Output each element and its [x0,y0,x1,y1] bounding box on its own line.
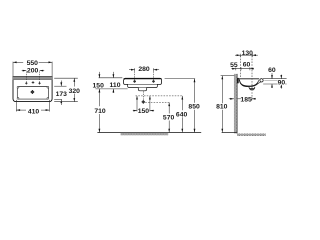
mounting blob [237,78,239,83]
front lip loop [259,78,264,83]
rim top line [238,78,259,80]
dim 150 bottom [133,110,137,112]
svg-text:60: 60 [243,62,251,69]
dashed line to 570 [145,102,169,104]
svg-text:185: 185 [240,96,252,103]
dim 810 [221,75,235,77]
floor hatch right [237,134,266,137]
svg-text:130: 130 [242,50,254,57]
dim 185 [229,97,256,100]
dim 280 [129,68,159,80]
svg-text:320: 320 [69,88,81,95]
dim 200 [22,71,45,82]
bowl corner rings [17,86,49,99]
drain boss sides [249,87,255,88]
svg-text:150: 150 [138,108,150,115]
svg-text:55: 55 [230,62,238,69]
top reference line [99,77,123,79]
svg-text:200: 200 [27,68,39,75]
drain diamond [142,100,145,103]
svg-text:173: 173 [56,91,68,98]
dimension label 185 (with white mask) [241,96,252,102]
svg-text:570: 570 [163,115,175,122]
right 60/90 reference lines [263,78,287,80]
dimension label 55 (with white mask) [230,62,237,68]
floor hatch middle [121,133,169,135]
floor line right [222,132,237,134]
basin rim band [13,77,53,80]
faucet hole crosses [25,81,41,84]
dimension label 810 (with white mask) [216,104,227,110]
mounting hole crosses [133,80,155,83]
svg-text:280: 280 [138,66,150,73]
dim 710 [98,89,100,106]
drain axis dashed [251,56,253,97]
svg-text:710: 710 [94,108,106,115]
svg-text:110: 110 [110,82,121,89]
bowl [17,87,48,100]
dim 130 [235,54,258,57]
dim 410 [16,100,49,112]
dimension label 60 (with white mask) [243,62,251,68]
svg-text:90: 90 [278,79,286,86]
tap axis dashed [240,56,242,79]
dashed line to 640 [136,95,183,97]
dim 550 [13,62,52,77]
drain bump [138,88,146,91]
dim 60 right [271,73,273,79]
svg-text:850: 850 [188,104,200,111]
dim 90 right [280,75,282,79]
dim 570 [168,103,170,114]
basin lower tier [128,85,158,88]
dim 110 arrows [112,72,114,78]
dimension label 90 (with white mask) [278,79,286,84]
basin outer body [13,77,52,102]
svg-text:640: 640 [176,111,188,118]
dim 320 [54,78,78,102]
svg-text:810: 810 [216,104,228,111]
supply verticals with arrows [136,96,138,111]
dim 640 [181,96,183,110]
dim 850 [194,79,196,103]
bowl inner [239,79,258,86]
svg-text:150: 150 [93,83,105,90]
dim 173 [54,81,66,106]
svg-text:410: 410 [28,108,40,115]
dim 150 arrows [98,72,100,78]
dashed vertical from bump to diamond [142,91,144,100]
basin slab [124,78,162,84]
bottom reference line [95,88,127,90]
floor line middle [97,132,201,134]
drain foot [250,88,253,91]
svg-text:550: 550 [27,60,39,67]
dim 55/60 [231,67,254,70]
drain boss band [249,88,255,89]
drain cross [31,90,34,93]
wall [234,74,237,133]
svg-text:60: 60 [268,67,276,74]
basin side profile [238,79,260,90]
850 top reference line [165,78,196,80]
bowl outer + apron to lip [239,80,260,87]
